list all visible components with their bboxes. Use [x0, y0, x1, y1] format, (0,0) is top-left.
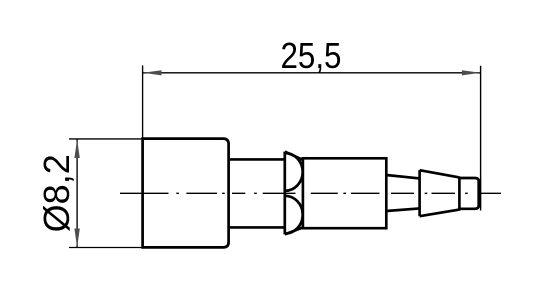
spring washer upper arc: [285, 153, 303, 191]
step section bottom edge: [229, 226, 285, 229]
arrow right of dimension 25,5: [462, 70, 481, 75]
taper cone left vertical: [418, 170, 421, 216]
neck bottom edge: [386, 208, 419, 211]
svg-text:25,5: 25,5: [281, 35, 342, 76]
taper cone top edge: [420, 170, 460, 177]
extension line bottom (for diameter 8,2): [69, 247, 143, 249]
centerline (dash-dot axis): [120, 192, 501, 194]
tip right edge (merged with extension line): [477, 180, 481, 208]
middle cylinder rectangle: [303, 158, 386, 228]
taper cone bottom edge: [420, 210, 460, 217]
tip rectangle: [459, 178, 478, 209]
arrow up of dimension 8,2: [74, 139, 79, 158]
dimension line 25,5: [143, 72, 481, 74]
extension line left (for 25,5): [142, 65, 144, 138]
dimension text 25,5: [281, 35, 342, 76]
spring washer top diagonal: [285, 152, 304, 161]
spring washer bottom diagonal: [285, 227, 304, 234]
extension line top (for diameter 8,2): [69, 138, 143, 140]
junction vertical between cone and tip: [458, 177, 461, 211]
extension line right (for 25,5): [480, 66, 482, 211]
dimension line diameter 8,2: [76, 139, 78, 248]
spring washer left vertical: [283, 152, 286, 235]
arrow left of dimension 25,5: [143, 70, 162, 75]
neck top edge: [386, 175, 419, 178]
spring washer lower arc: [285, 196, 303, 234]
step section top edge: [229, 158, 285, 161]
dimension text diameter 8,2 (rotated): [36, 154, 77, 232]
centerline dots: [176, 192, 467, 194]
svg-text:Ø8,2: Ø8,2: [36, 154, 77, 232]
body (large flange, diameter 8,2): [143, 139, 229, 248]
arrow down of dimension 8,2: [74, 229, 79, 248]
